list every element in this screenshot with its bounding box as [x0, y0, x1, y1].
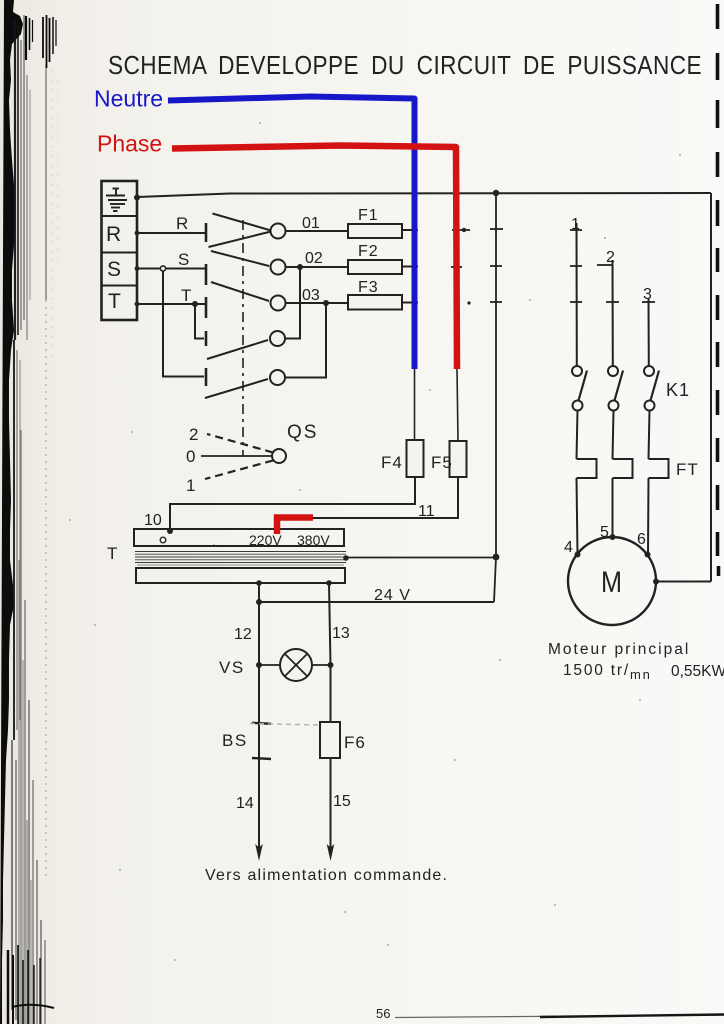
node 01 / wire to F1 [286, 230, 349, 232]
fuse F3 [348, 295, 402, 310]
svg-text:2: 2 [189, 425, 198, 444]
wire winding tap to mid rail [346, 557, 496, 559]
svg-text:R: R [106, 223, 121, 246]
wire mid rail (to 24V) [494, 193, 496, 602]
svg-text:F5: F5 [431, 453, 453, 472]
svg-text:VS: VS [219, 658, 245, 677]
svg-text:13: 13 [332, 625, 350, 642]
wire S phase row [137, 268, 206, 270]
wires FT to motor [577, 478, 649, 555]
svg-text:6: 6 [637, 531, 646, 548]
wire line 2 [612, 260, 614, 366]
wire right rail [710, 193, 712, 582]
svg-text:0: 0 [186, 447, 195, 466]
motor pin 5 node [610, 534, 616, 540]
wire 12 down [258, 602, 260, 852]
svg-text:11: 11 [418, 503, 435, 520]
switch QS output contacts [270, 224, 286, 386]
svg-text:F6: F6 [344, 733, 366, 752]
node earth terminal [134, 195, 140, 201]
svg-text:Moteur principal: Moteur principal [548, 641, 690, 658]
svg-text:BS: BS [222, 731, 248, 750]
wire phase (red) [172, 146, 457, 370]
svg-text:0,55KW: 0,55KW [671, 663, 724, 680]
svg-text:Vers alimentation commande.: Vers alimentation commande. [205, 867, 448, 884]
svg-text:14: 14 [236, 795, 254, 812]
wire 24V [259, 583, 494, 602]
wire neutral (blue) [168, 97, 415, 370]
svg-text:F2: F2 [358, 243, 379, 260]
svg-text:T: T [108, 290, 121, 313]
svg-text:2: 2 [606, 249, 615, 266]
crossing ticks row2 [451, 265, 613, 267]
svg-text:FT: FT [676, 460, 699, 479]
wire R phase row [137, 232, 206, 234]
svg-text:15: 15 [333, 793, 351, 810]
node 02 / wire to F2 [286, 266, 349, 268]
wire earth to top rail [137, 193, 711, 197]
svg-text:02: 02 [305, 250, 323, 267]
wire red tap to 220V [277, 518, 313, 535]
node 03 / wire to F3 [286, 302, 349, 304]
fuse F2 [348, 260, 402, 274]
node top rail junction [493, 190, 499, 196]
wire T phase row [137, 303, 206, 305]
svg-text:10: 10 [144, 512, 162, 529]
svg-text:Neutre: Neutre [94, 86, 163, 112]
transformer T secondary [136, 568, 345, 583]
svg-text:R: R [176, 214, 188, 233]
svg-text:1: 1 [571, 216, 580, 233]
switch QS blades [205, 214, 271, 399]
wire T to pole 4 [195, 304, 204, 339]
svg-text:12: 12 [234, 626, 252, 643]
transformer T primary [134, 529, 344, 546]
svg-text:56: 56 [376, 1006, 390, 1021]
wire contact4 to 02 [285, 267, 300, 339]
contactor K1 [572, 366, 655, 411]
wire line 3 [648, 299, 650, 366]
terminal block [102, 181, 138, 320]
wire F4 to transformer 220V tap (node 10) [170, 477, 415, 530]
svg-text:F4: F4 [381, 453, 403, 472]
svg-text:24 V: 24 V [374, 587, 411, 604]
svg-text:M: M [601, 566, 622, 599]
svg-text:3: 3 [643, 286, 652, 303]
motor M [568, 537, 656, 625]
node S tap [160, 266, 165, 271]
crossing ticks row1 [452, 229, 582, 230]
wire F5 to transformer 380V tap (node 11) [310, 477, 458, 518]
wire under blue to F4 [414, 369, 416, 440]
crossing ticks row3 [490, 301, 655, 303]
svg-text:01: 01 [302, 215, 320, 232]
svg-text:S: S [107, 258, 121, 281]
transformer winding [135, 552, 346, 566]
linkage dashed line [242, 220, 244, 457]
switch QS pole bars [205, 223, 208, 386]
wires K1 to FT [577, 411, 650, 460]
motor pin 6 node [645, 552, 651, 558]
svg-text:S: S [178, 250, 189, 269]
ground symbol [106, 189, 127, 212]
thermal relay FT [577, 459, 669, 478]
svg-text:03: 03 [302, 287, 320, 304]
wire 13 down [329, 583, 331, 722]
svg-text:380V: 380V [297, 532, 330, 548]
node 10 [167, 528, 173, 534]
svg-text:F3: F3 [358, 279, 379, 296]
motor pin 4 node [575, 552, 581, 558]
fuse F1 [348, 224, 402, 238]
svg-text:F1: F1 [358, 207, 379, 224]
svg-text:SCHEMA DEVELOPPE DU CIRCUIT DE: SCHEMA DEVELOPPE DU CIRCUIT DE PUISSANCE [108, 52, 702, 80]
wire contact5 to 03 [285, 303, 326, 378]
wire motor to right rail [656, 581, 711, 583]
node winding tap [343, 555, 349, 561]
fuse F5 [450, 441, 467, 477]
svg-text:220V: 220V [249, 532, 282, 548]
node T tap [192, 301, 198, 307]
svg-text:T: T [181, 286, 191, 305]
svg-text:4: 4 [564, 539, 573, 556]
motor output node [653, 579, 659, 585]
wire line 1 [576, 223, 578, 366]
svg-text:1: 1 [186, 476, 195, 495]
svg-text:Phase: Phase [97, 131, 162, 157]
wire S to pole 5 [163, 271, 204, 377]
svg-text:T: T [107, 544, 117, 563]
svg-text:K1: K1 [666, 380, 690, 400]
fuse F4 [407, 440, 424, 477]
svg-text:5: 5 [600, 524, 609, 541]
fuse F6 [320, 722, 340, 758]
svg-text:QS: QS [287, 422, 318, 443]
wire under red to F5 [457, 369, 458, 441]
